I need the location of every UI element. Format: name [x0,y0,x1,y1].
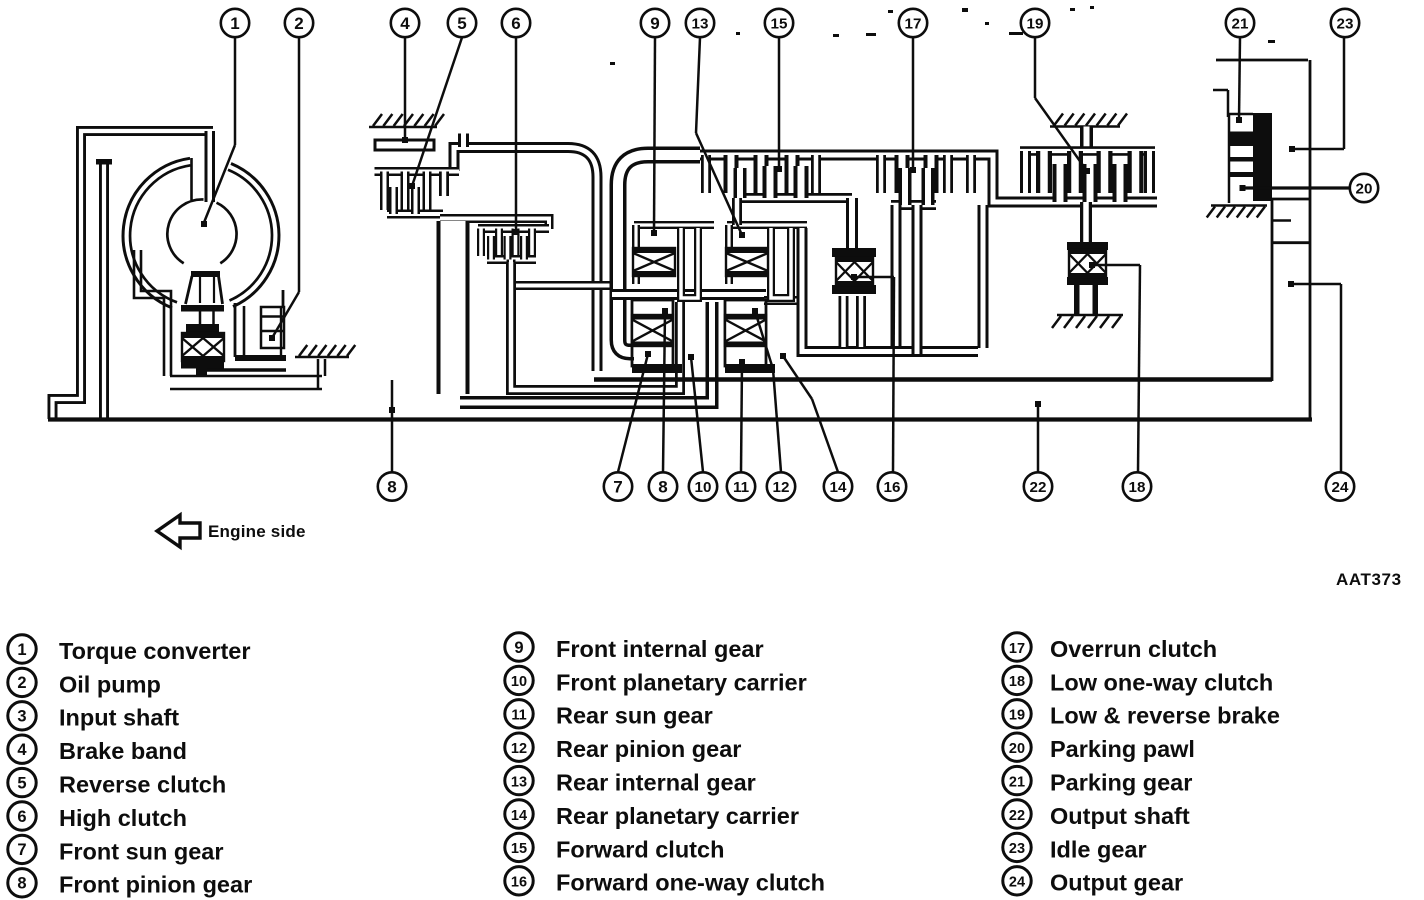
low & reverse brake (19) anchor hatch [1050,114,1127,127]
brake band (4) [375,140,434,150]
svg-text:4: 4 [17,741,27,759]
callout 23 [1331,9,1359,37]
forward one-way clutch (16) stem [846,198,858,250]
svg-text:6: 6 [511,14,520,33]
legend item 4 Brake band [8,735,187,764]
svg-text:4: 4 [400,14,410,33]
svg-text:Low one-way clutch: Low one-way clutch [1050,669,1273,695]
parking bracket [1213,89,1228,92]
svg-text:18: 18 [1009,674,1025,690]
svg-text:Forward one-way clutch: Forward one-way clutch [556,870,825,896]
legend item 16 Forward one-way clutch [505,867,825,896]
transmission case outer wall [53,131,214,419]
svg-text:Forward clutch: Forward clutch [556,836,724,862]
callout 6 [502,9,530,37]
svg-text:Brake band: Brake band [59,738,187,764]
parking pawl (20) cells [1228,157,1253,162]
legend item 7 Front sun gear [8,835,224,864]
callout 17 [899,9,927,37]
svg-text:Output gear: Output gear [1050,870,1183,896]
ground hatch under low one-way clutch [1052,315,1123,328]
svg-text:AAT373: AAT373 [1336,570,1402,589]
svg-text:Front sun gear: Front sun gear [59,838,224,864]
svg-text:Rear sun gear: Rear sun gear [556,703,713,729]
low & reverse brake upper comb [1020,146,1155,156]
output shaft (22) upper line [594,377,1272,381]
callout 11 [727,472,755,500]
legend item 8 Front pinion gear [8,869,252,898]
rear sun gear lower box [725,300,766,366]
legend item 19 Low & reverse brake [1003,700,1280,729]
idle gear housing right wall [1309,60,1312,419]
svg-text:17: 17 [1009,641,1025,657]
overrun clutch drum legs [891,205,902,346]
svg-text:8: 8 [17,875,26,893]
idle gear shaft top line [1216,59,1308,62]
svg-text:19: 19 [1009,708,1025,724]
high clutch hub pipe [511,260,612,286]
legend item 23 Idle gear [1003,833,1147,862]
svg-text:9: 9 [650,14,659,33]
legend item 6 High clutch [8,802,187,831]
svg-text:23: 23 [1337,15,1354,32]
torque converter (1) outer shell [123,158,279,308]
svg-text:18: 18 [1129,479,1146,496]
callout 8 [378,472,406,500]
callout 5 [448,9,476,37]
callout 13 [686,9,714,37]
svg-text:14: 14 [511,808,527,824]
reverse clutch upper plates [380,172,389,211]
svg-text:22: 22 [1030,479,1047,496]
legend item 3 Input shaft [8,702,179,731]
svg-text:Rear internal gear: Rear internal gear [556,770,756,796]
input shaft channel into torque converter [205,131,216,202]
svg-text:Parking pawl: Parking pawl [1050,736,1195,762]
legend item 24 Output gear [1003,867,1183,896]
output gear hub bar [1253,113,1272,201]
svg-text:9: 9 [514,639,523,657]
callout 2 [285,9,313,37]
callout 22 [1024,472,1052,500]
legend item 18 Low one-way clutch [1003,666,1273,695]
carrier step pipes [612,289,766,300]
svg-text:14: 14 [830,479,847,496]
torque converter turbine ball [167,199,236,263]
legend item 1 Torque converter [8,635,251,664]
legend item 13 Rear internal gear [505,766,756,795]
parking gear (21) left wall [1228,114,1231,203]
svg-text:10: 10 [511,674,527,690]
svg-text:High clutch: High clutch [59,805,187,831]
callout 16 [878,472,906,500]
callout 14 [824,472,852,500]
low one-way clutch lower stem [1074,285,1098,314]
brake band (4) anchor hatch [369,114,444,127]
svg-text:21: 21 [1009,774,1025,790]
svg-text:20: 20 [1356,180,1373,197]
svg-text:12: 12 [511,741,527,757]
parking gear tooth [1228,132,1253,147]
front planetary carrier column [681,228,698,298]
svg-text:Engine side: Engine side [208,522,306,541]
svg-text:Parking gear: Parking gear [1050,770,1192,796]
callout 7 [604,472,632,500]
svg-text:17: 17 [905,15,922,32]
case step under torque converter [134,250,164,376]
stator shaft flange [181,305,224,312]
legend item 21 Parking gear [1003,766,1193,795]
front internal gear (9) drum top [634,221,714,229]
svg-text:24: 24 [1009,875,1025,891]
front sun gear lower box [632,300,673,366]
idle gear mesh cell wall [1271,198,1274,381]
legend item 12 Rear pinion gear [505,733,742,762]
callout 10 [689,472,717,500]
svg-text:20: 20 [1009,741,1025,757]
one-way clutch lower legs [839,296,849,347]
svg-text:7: 7 [613,478,622,497]
svg-text:Overrun clutch: Overrun clutch [1050,636,1217,662]
band anchor tab [458,134,469,148]
legend item 17 Overrun clutch [1003,633,1217,662]
low one-way clutch (18) stem [1080,202,1092,242]
svg-text:Torque converter: Torque converter [59,638,251,664]
legend item 14 Rear planetary carrier [505,800,799,829]
svg-text:10: 10 [695,479,712,496]
torque converter shell lower right wall [234,303,237,357]
one-way clutch bearing of torque converter [182,333,224,361]
svg-text:Front planetary carrier: Front planetary carrier [556,669,807,695]
svg-text:7: 7 [17,841,26,859]
svg-text:15: 15 [511,841,527,857]
svg-text:Input shaft: Input shaft [59,705,179,731]
svg-text:22: 22 [1009,808,1025,824]
callout 20 [1350,174,1378,202]
svg-text:16: 16 [884,479,901,496]
svg-text:8: 8 [658,478,667,497]
legend item 15 Forward clutch [505,833,725,862]
svg-text:Front internal gear: Front internal gear [556,636,764,662]
forward clutch (15) retainer rail [700,155,1157,202]
svg-text:5: 5 [457,14,466,33]
legend item 9 Front internal gear [505,633,764,662]
forward clutch hub comb [735,193,852,203]
callout 24 [1326,472,1354,500]
svg-text:15: 15 [771,15,788,32]
svg-text:8: 8 [387,478,396,497]
svg-text:Front pinion gear: Front pinion gear [59,872,252,898]
svg-text:Oil pump: Oil pump [59,671,161,697]
idle gear mesh lines (23) [1272,198,1310,201]
callout 9 [641,9,669,37]
callout 21 [1226,9,1254,37]
parking mechanism ground hatch [1207,206,1267,218]
legend item 5 Reverse clutch [8,768,226,797]
legend item 2 Oil pump [8,668,161,697]
reverse clutch hub comb [387,210,443,219]
svg-text:11: 11 [733,479,750,496]
low & reverse brake lower comb teeth [1053,164,1068,202]
svg-text:Reverse clutch: Reverse clutch [59,772,226,798]
low & reverse brake anchor stem [1080,127,1093,152]
svg-text:19: 19 [1027,15,1044,32]
svg-text:3: 3 [17,708,26,726]
front planetary drum pipe (input to forward clutch) [618,155,700,352]
high clutch drum U2 [511,262,680,390]
callout 19 [1021,9,1049,37]
svg-text:5: 5 [17,774,26,792]
input shaft pipe to front drum [454,148,597,372]
callout 1 [221,9,249,37]
link bar to high clutch drum [440,219,549,230]
engine side arrow [157,515,200,547]
oil pump (2) [261,307,284,348]
svg-text:13: 13 [692,15,709,32]
high clutch hub comb [487,255,536,264]
svg-text:12: 12 [773,479,790,496]
svg-text:Rear planetary carrier: Rear planetary carrier [556,803,799,829]
overrun clutch (17) upper plates [895,155,910,193]
overrun clutch hub comb [891,200,936,210]
rear planetary carrier column [771,228,791,298]
oil pump support pipes [170,375,322,378]
forward clutch upper plates [724,155,739,193]
scan specks [736,32,740,35]
stator cone under ball [191,271,220,277]
svg-text:Output shaft: Output shaft [1050,803,1190,829]
callout 15 [765,9,793,37]
reverse drum bottom / inner case line [460,302,712,403]
main bottom line / output shaft [48,417,1312,421]
leader lines and dots [201,38,1351,473]
svg-text:16: 16 [511,875,527,891]
svg-text:24: 24 [1332,479,1349,496]
low one-way clutch (18) [1067,242,1108,250]
svg-text:Rear pinion gear: Rear pinion gear [556,736,741,762]
rear planetary upper bearing [726,248,768,276]
svg-text:6: 6 [17,808,26,826]
legend item 11 Rear sun gear [505,700,713,729]
svg-text:2: 2 [17,674,26,692]
svg-text:Low & reverse brake: Low & reverse brake [1050,703,1280,729]
svg-text:11: 11 [511,708,526,724]
svg-text:1: 1 [230,14,239,33]
callout 4 [391,9,419,37]
reverse clutch drum wide leg [437,221,470,394]
front planetary upper bearing [633,248,675,276]
svg-text:2: 2 [294,14,303,33]
legend item 20 Parking pawl [1003,733,1195,762]
callout 12 [767,472,795,500]
high clutch (6) upper comb [478,224,549,233]
rear internal gear (13) drum top [727,221,807,229]
svg-text:Idle gear: Idle gear [1050,836,1147,862]
legend item 22 Output shaft [1003,800,1190,829]
forward one-way clutch (16) [832,248,876,257]
case inner support wall [99,163,109,419]
link to rear internal gear [732,198,742,225]
svg-text:1: 1 [17,641,26,659]
reverse clutch (5) drum top bar [375,167,460,176]
rear drum wall and bottom container [802,228,978,352]
svg-text:13: 13 [511,774,527,790]
legend item 10 Front planetary carrier [505,666,807,695]
callout 18 [1123,472,1151,500]
ground hatch right of oil pump [295,345,355,357]
svg-text:21: 21 [1232,15,1249,32]
svg-text:23: 23 [1009,841,1025,857]
callout 8 [649,472,677,500]
